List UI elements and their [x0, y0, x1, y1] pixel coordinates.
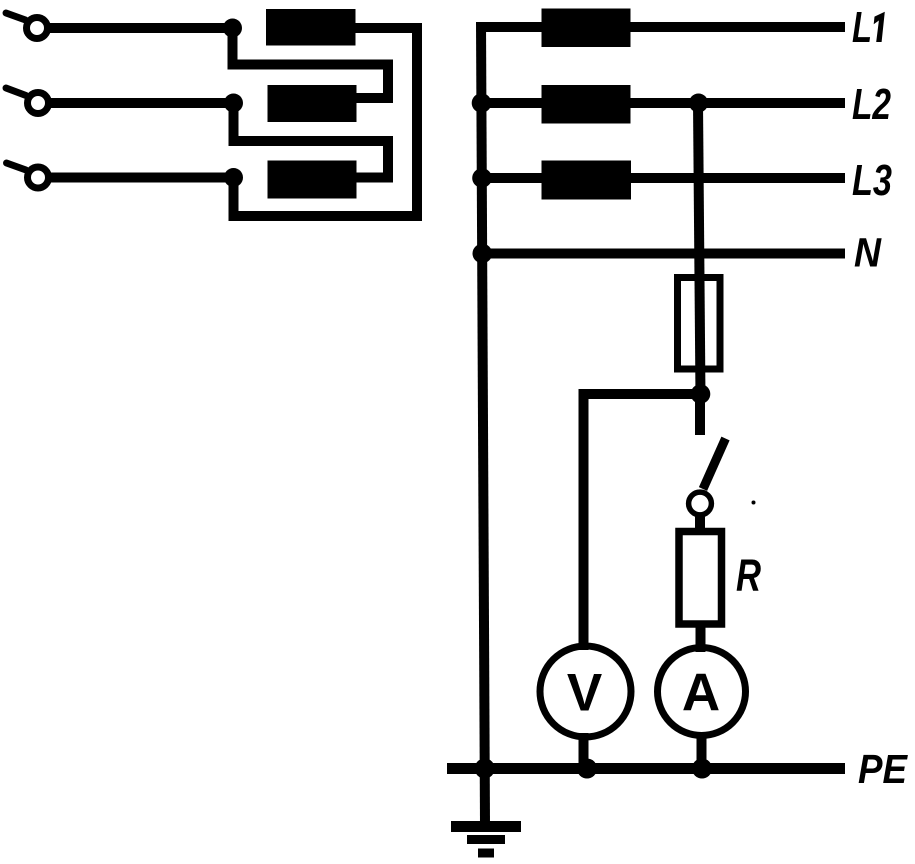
wire ammeter to PE [697, 733, 707, 769]
wire L2 row [481, 98, 845, 108]
voltmeter V [540, 646, 631, 737]
wire bus N conductor vertical [481, 22, 485, 824]
node bus-L3 [472, 168, 492, 188]
node PE-voltmeter [577, 759, 597, 779]
wire voltmeter to PE [579, 733, 589, 769]
terminal X2 [6, 88, 49, 114]
fuse link F1 (L1) [542, 9, 631, 48]
fuse link F3 (L3) [542, 161, 632, 200]
node PE-ammeter [692, 759, 712, 779]
wire Z1 output outer loop to phase3 node [234, 28, 418, 216]
scan speck artifact [752, 501, 756, 505]
node L2 tap [689, 94, 708, 113]
filter block Z2 [268, 85, 357, 122]
node junction phase3 [224, 168, 243, 187]
node test junction [691, 384, 711, 404]
svg-text:L3: L3 [852, 156, 892, 205]
node junction phase1 [223, 19, 242, 38]
ammeter A [658, 648, 746, 736]
wire L2 tap drop to fuse [698, 103, 701, 398]
node junction phase2 [224, 94, 243, 113]
svg-text:L2: L2 [852, 80, 891, 129]
fuse link F2 (L2) [542, 85, 631, 124]
filter block Z1 [266, 9, 356, 46]
fuse F4 (test circuit) [678, 278, 721, 370]
svg-text:A: A [682, 664, 720, 723]
svg-text:V: V [567, 664, 602, 723]
ground [451, 827, 521, 854]
wire phase2 node to Z3 output [234, 103, 389, 178]
wire phase 3 input [51, 173, 238, 183]
node bus-N [473, 244, 493, 264]
filter block Z3 [268, 161, 357, 199]
terminal X3 [7, 163, 49, 188]
wire switch fixed contact [695, 394, 705, 435]
wire phase1 node to Z2 output [233, 28, 389, 98]
wire L3 row [482, 173, 846, 183]
wire switch to resistor [695, 515, 705, 535]
node PE-bus [475, 759, 495, 779]
resistor R [679, 532, 722, 625]
wire N row [482, 249, 845, 259]
svg-text:L: L [852, 3, 872, 52]
wire phase 1 input [50, 23, 237, 33]
switch S1 contact [689, 492, 712, 515]
svg-text:PE: PE [858, 746, 908, 792]
wire phase 2 input [51, 98, 238, 108]
wire PE row [447, 763, 845, 774]
svg-text:R: R [736, 550, 761, 601]
wire resistor to ammeter [696, 624, 706, 652]
svg-text:N: N [854, 230, 882, 276]
wire test junction to voltmeter branch [584, 394, 701, 650]
node bus-L2 [472, 93, 492, 113]
wire L1 row [477, 22, 846, 32]
terminal X1 [6, 13, 48, 39]
switch S1 blade [703, 439, 726, 490]
